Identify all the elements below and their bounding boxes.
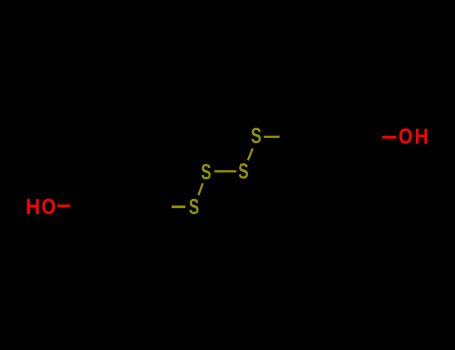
bond C-S1 (yellow half) (172, 206, 186, 209)
bond C-O right (red half) (382, 136, 396, 139)
atom S1 (189, 199, 198, 214)
bond S4-C (yellow half) (264, 136, 280, 138)
bond S1-S2 (diagonal) (198, 183, 202, 195)
atom S2 (201, 164, 210, 179)
right benzene ring (carbon skeleton, black on black) (285, 97, 378, 177)
label O of OH (399, 128, 412, 143)
left benzene ring (carbon skeleton, black on black) (76, 166, 169, 246)
atom S4 (251, 128, 261, 143)
label H of OH (416, 129, 427, 144)
atom S3 (239, 163, 248, 178)
bond S3-S4 (diagonal) (248, 149, 253, 161)
label H of HO (27, 199, 39, 214)
bond S2-S3 (214, 170, 236, 172)
bond O-C left (red half) (57, 205, 70, 208)
label O of HO (42, 199, 55, 214)
